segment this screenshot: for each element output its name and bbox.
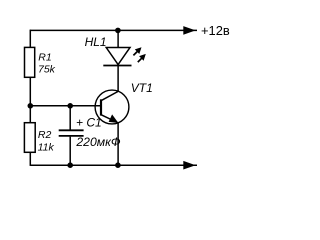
svg-text:220мкФ: 220мкФ [75,135,120,149]
svg-text:+12в: +12в [201,23,230,38]
svg-text:HL1: HL1 [85,35,107,49]
svg-text:+ C1: + C1 [76,116,102,130]
svg-text:VT1: VT1 [131,81,153,95]
svg-text:R1: R1 [38,51,51,63]
svg-text:11k: 11k [38,142,55,154]
svg-text:R2: R2 [38,129,52,141]
svg-text:75k: 75k [38,63,56,75]
